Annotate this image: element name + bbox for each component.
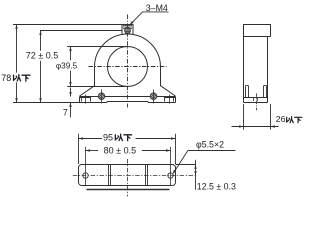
front view: vertical centerline [127, 15, 129, 108]
bottom view: hole/body edge double lines [109, 165, 148, 186]
right gusset [161, 86, 176, 96]
dimension 95以下 overall width [78, 134, 80, 164]
svg-text:3–M4: 3–M4 [146, 3, 168, 13]
extension: rect top extended right [176, 164, 197, 166]
svg-text:φ39.5: φ39.5 [56, 62, 78, 71]
right slot centerline tick [169, 95, 171, 104]
right foot slot [164, 98, 176, 102]
M4 boss on top of body [122, 25, 133, 35]
M4 boss threaded hole (hatched) [125, 27, 131, 33]
base plate outline [80, 97, 176, 103]
left M4 hole on base front (hatched circle) [98, 93, 105, 100]
side view: vertical centerline [256, 93, 258, 110]
dimension 80 ±0.5 hole pitch [86, 150, 99, 152]
bottom view: right phi5.5 hole [168, 173, 173, 178]
dimension 7 base thickness [70, 88, 72, 97]
side view: base top line [244, 97, 268, 99]
bottom view: left phi5.5 hole [83, 173, 88, 178]
base top edge line [80, 96, 176, 98]
extension line: M4 boss face [40, 30, 123, 32]
svg-text:78: 78 [1, 73, 11, 83]
side view: boss bottom line [244, 36, 271, 38]
svg-text:7: 7 [63, 107, 68, 117]
left slot centerline tick [85, 95, 87, 104]
svg-text:95: 95 [103, 132, 113, 142]
bottom view: lower edge thick line [87, 189, 170, 191]
front view: through-hole circle phi39.5 [108, 47, 148, 87]
left gusset [80, 86, 95, 96]
svg-text:80 ± 0.5: 80 ± 0.5 [104, 146, 136, 156]
dimension 26以下 depth [243, 104, 245, 130]
dimension 78以下 overall height [16, 25, 18, 73]
bottom view: vertical centerline [127, 159, 129, 197]
side view: body sides [244, 37, 268, 103]
side view: top boss block [244, 25, 271, 37]
right M4 hole on base front (hatched circle) [150, 93, 157, 100]
dimension phi39.5 hole [70, 47, 72, 61]
extension line: base bottom extended left [13, 102, 80, 104]
extension line: top of unit [13, 24, 133, 26]
svg-text:12.5 ± 0.3: 12.5 ± 0.3 [197, 181, 236, 191]
front view: horizontal centerline [89, 66, 167, 68]
left hole vertical / 80-dim extension [85, 147, 87, 186]
side view: right flange channel [264, 85, 267, 97]
12.5 dim line [195, 160, 197, 190]
dimension 72 ±0.5 [40, 31, 42, 51]
side view: left flange channel [246, 85, 249, 97]
svg-text:72 ± 0.5: 72 ± 0.5 [26, 50, 58, 60]
extension line: hole bottom tangent [67, 86, 127, 88]
side view: hidden hole ticks [254, 98, 258, 102]
side view top edge [244, 24, 271, 26]
side view: base bottom [244, 102, 268, 104]
svg-text:26: 26 [276, 114, 286, 124]
left foot slot (phi5.5 seen from front) [80, 98, 92, 102]
extension line: hole top tangent [67, 46, 127, 48]
right hole vertical / 80-dim extension [170, 147, 172, 186]
bottom view: horizontal centerline [73, 175, 196, 177]
svg-text:φ5.5×2: φ5.5×2 [196, 140, 224, 150]
front view: body outer profile (top arc + vertical sides) [95, 34, 161, 86]
bottom view: base plate rounded rect [79, 165, 176, 186]
base bottom edge with center recess [80, 102, 176, 103]
